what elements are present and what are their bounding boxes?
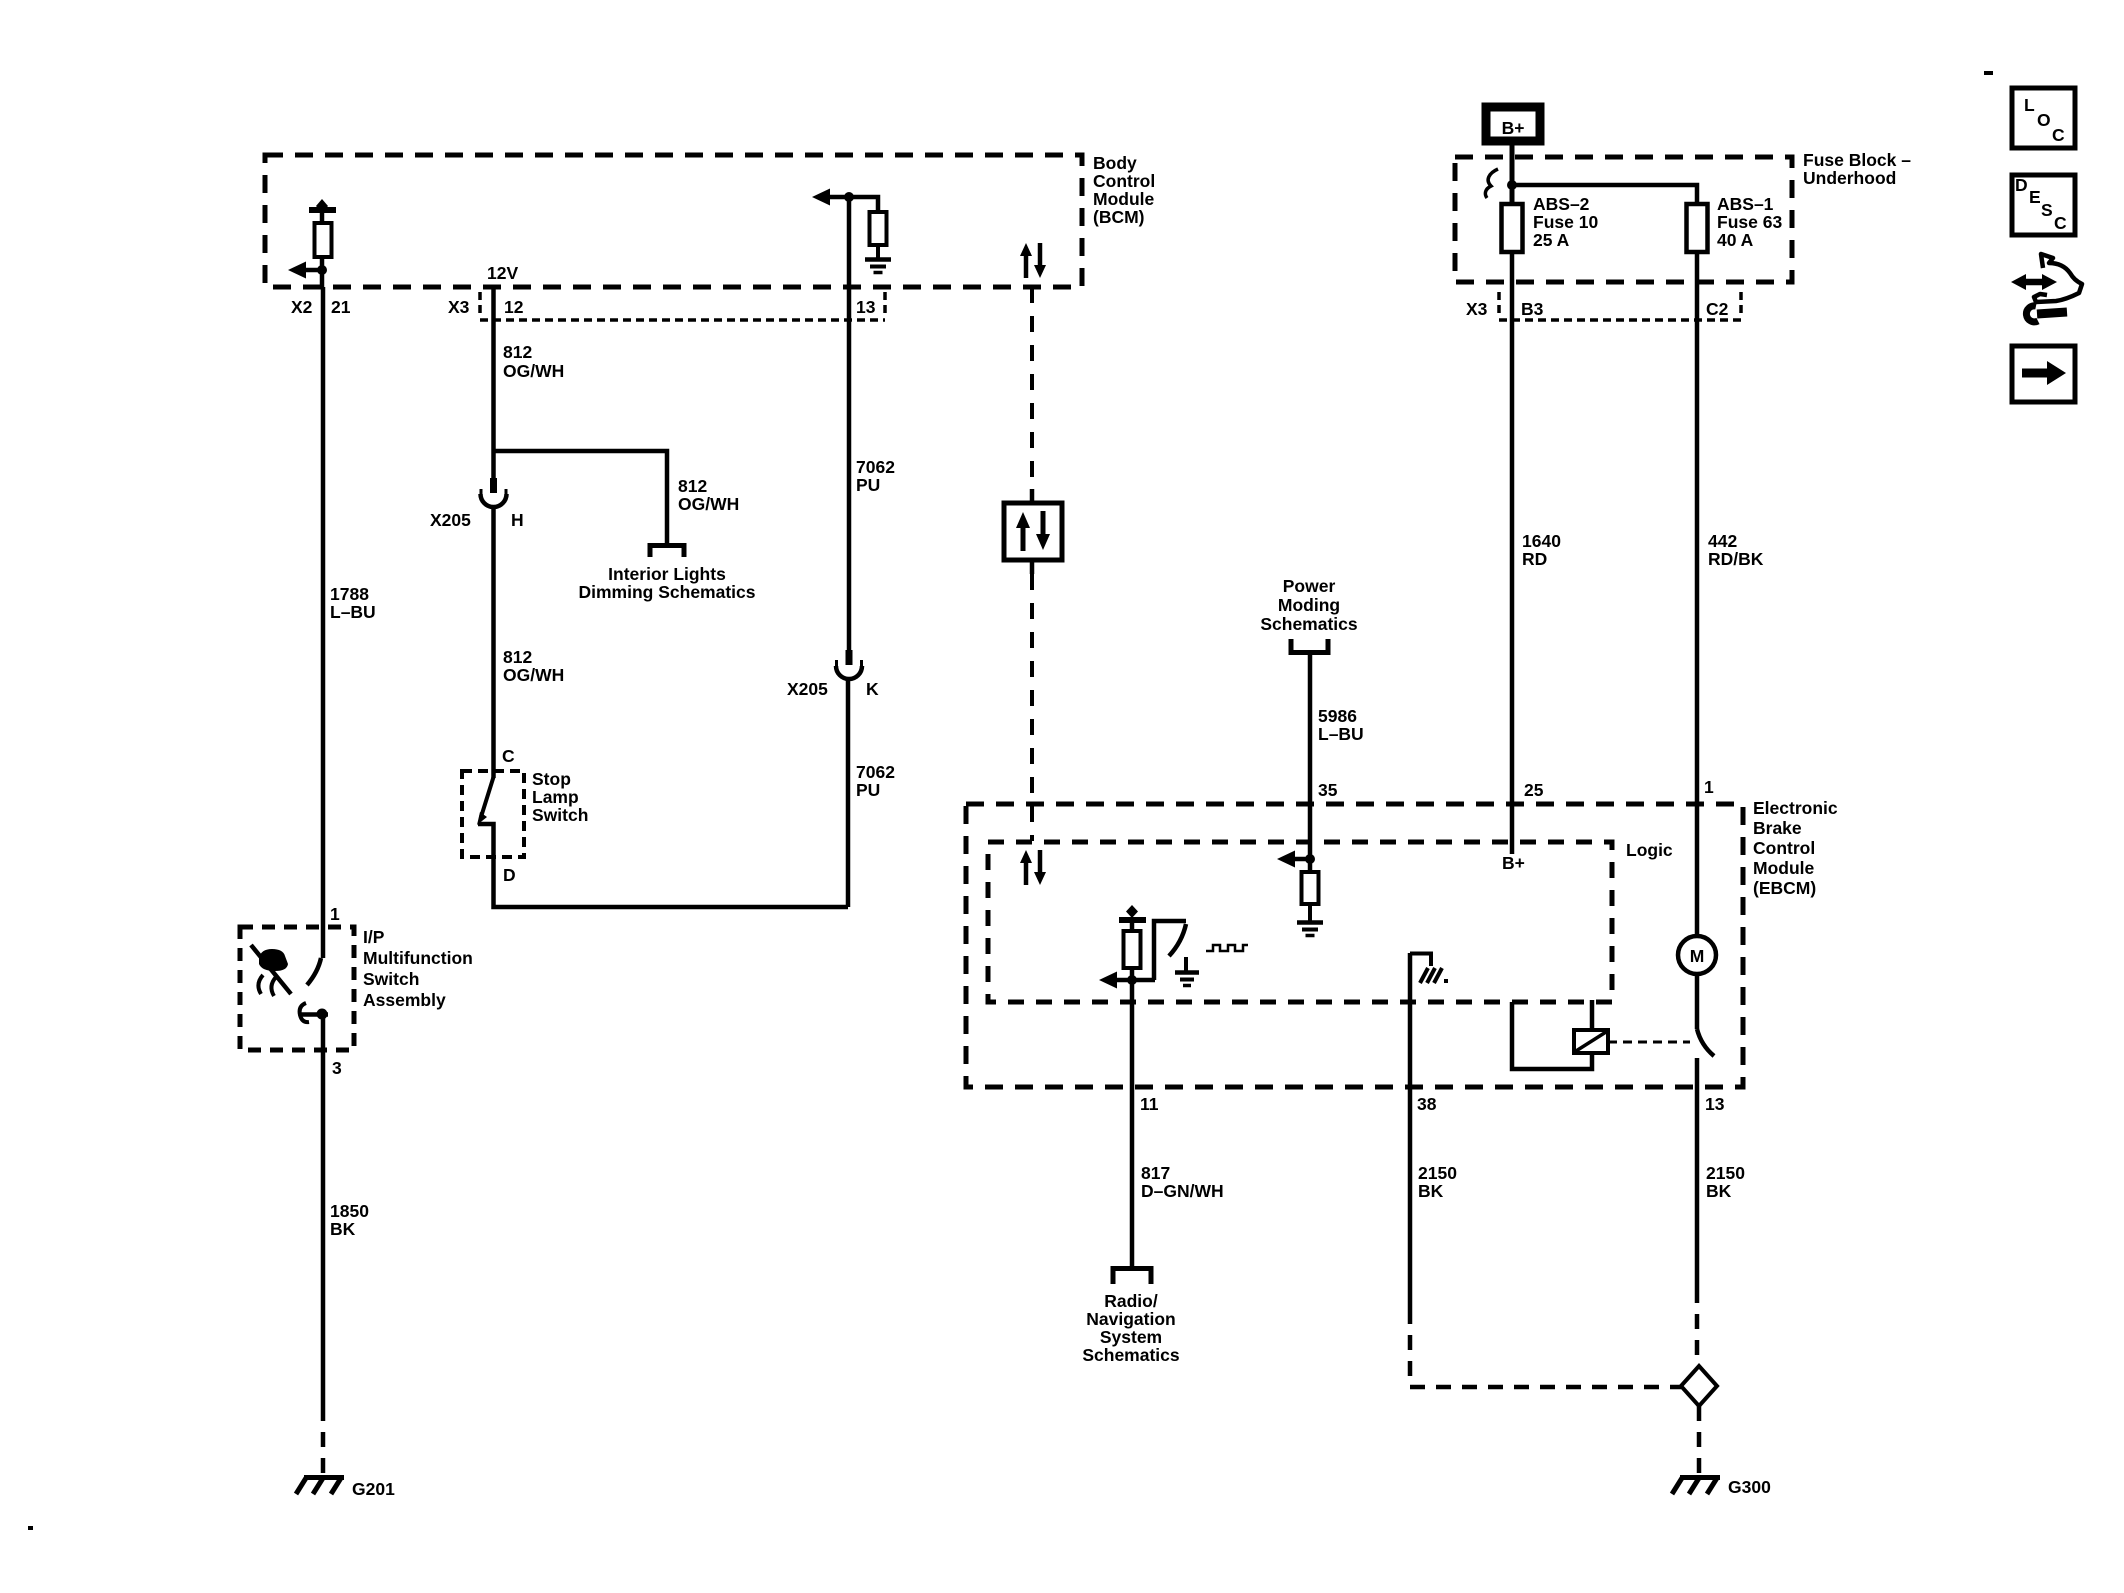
svg-text:RD/BK: RD/BK <box>1708 549 1764 569</box>
connector X3 (BCM) box <box>480 292 885 320</box>
svg-text:X3: X3 <box>448 297 470 317</box>
wire B+ feed <box>1510 141 1515 204</box>
svg-text:L–BU: L–BU <box>1318 724 1364 744</box>
BCM output arrow (left) <box>288 262 327 279</box>
in-line connector X205 H <box>430 451 524 530</box>
svg-text:X3: X3 <box>1466 299 1488 319</box>
svg-text:D: D <box>503 865 516 885</box>
svg-text:Switch: Switch <box>363 969 419 989</box>
Electronic Brake Control Module (EBCM) box <box>966 798 1838 1087</box>
ground G201 <box>296 1478 395 1500</box>
Power Moding Schematics off-page <box>1260 576 1358 653</box>
svg-text:X205: X205 <box>430 510 471 530</box>
svg-text:Brake: Brake <box>1753 818 1802 838</box>
svg-text:K: K <box>866 679 879 699</box>
svg-text:D: D <box>2015 175 2028 195</box>
fuse ABS-2 Fuse 10 25 A <box>1502 194 1599 252</box>
svg-text:1: 1 <box>1704 777 1714 797</box>
svg-text:Schematics: Schematics <box>1260 614 1358 634</box>
traction control icon <box>251 945 291 996</box>
ground G300 <box>1672 1477 1771 1497</box>
terminal clip symbol <box>1485 169 1498 198</box>
relay coil <box>1512 1000 1690 1069</box>
svg-text:2150: 2150 <box>1418 1163 1457 1183</box>
in-line connector X205 K <box>787 650 879 699</box>
svg-text:H: H <box>511 510 524 530</box>
svg-text:25: 25 <box>1524 780 1544 800</box>
svg-text:Fuse 10: Fuse 10 <box>1533 212 1598 232</box>
svg-text:Switch: Switch <box>532 805 588 825</box>
svg-text:C: C <box>2054 213 2067 233</box>
svg-text:PU: PU <box>856 780 880 800</box>
svg-text:Fuse 63: Fuse 63 <box>1717 212 1782 232</box>
svg-text:812: 812 <box>503 342 532 362</box>
wire 442 RD/BK <box>1695 252 1700 937</box>
B+ battery terminal <box>1486 107 1540 141</box>
5986 input: arrow, junction, resistor, ground <box>1277 851 1323 936</box>
svg-text:38: 38 <box>1417 1094 1437 1114</box>
svg-text:BK: BK <box>1418 1181 1444 1201</box>
svg-text:G300: G300 <box>1728 1477 1771 1497</box>
svg-text:B+: B+ <box>1502 853 1525 873</box>
svg-text:Dimming Schematics: Dimming Schematics <box>579 582 756 602</box>
wire 5986 L-BU <box>1308 652 1313 859</box>
svg-text:Navigation: Navigation <box>1086 1309 1175 1329</box>
svg-text:L–BU: L–BU <box>330 602 376 622</box>
svg-text:35: 35 <box>1318 780 1338 800</box>
svg-text:Lamp: Lamp <box>532 787 579 807</box>
branch wire to Interior Lights <box>494 451 668 545</box>
svg-text:1788: 1788 <box>330 584 369 604</box>
serial data dashed wire to EBCM <box>1030 574 1034 841</box>
B+ feed into Logic <box>1510 842 1515 854</box>
pump motor M <box>1678 936 1716 974</box>
svg-text:Logic: Logic <box>1626 840 1673 860</box>
stop lamp input: pull-up, arrow, switch to ground, square wave <box>1099 905 1248 989</box>
svg-text:3: 3 <box>332 1058 342 1078</box>
wire 2150 BK (pin 38) <box>1408 953 1413 1087</box>
BCM internal pull-up resistor to ground (right) <box>812 189 887 259</box>
svg-text:Control: Control <box>1753 838 1815 858</box>
scan artifact dot bottom-left <box>28 1526 33 1530</box>
DESC legend icon <box>2012 175 2075 235</box>
svg-text:B3: B3 <box>1521 299 1544 319</box>
splice (diamond) <box>1681 1366 1717 1406</box>
svg-text:I/P: I/P <box>363 927 385 947</box>
svg-text:G201: G201 <box>352 1479 395 1499</box>
svg-text:B+: B+ <box>1502 118 1525 138</box>
svg-text:ABS–2: ABS–2 <box>1533 194 1590 214</box>
svg-text:Underhood: Underhood <box>1803 168 1896 188</box>
svg-text:21: 21 <box>331 297 351 317</box>
dashed ground lead to splice <box>1410 1309 1681 1387</box>
wire 1640 RD <box>1510 252 1515 842</box>
off-page bracket Radio/Navigation <box>1082 1269 1180 1366</box>
relay switch blade <box>1697 1029 1714 1056</box>
serial data arrows inside Logic <box>1020 850 1046 885</box>
svg-text:Multifunction: Multifunction <box>363 948 473 968</box>
svg-text:C: C <box>2052 125 2065 145</box>
Logic box <box>988 840 1673 1002</box>
svg-text:E: E <box>2029 187 2041 207</box>
svg-text:C2: C2 <box>1706 299 1729 319</box>
svg-text:Stop: Stop <box>532 769 571 789</box>
wire 817 through Logic bottom <box>1130 980 1135 1087</box>
svg-text:1: 1 <box>330 904 340 924</box>
svg-text:OG/WH: OG/WH <box>678 494 739 514</box>
fuse ABS-1 Fuse 63 40 A <box>1687 194 1783 252</box>
junction B+ <box>1507 180 1517 190</box>
LOC legend icon <box>2012 88 2075 148</box>
svg-text:812: 812 <box>503 647 532 667</box>
Body Control Module (BCM) box <box>265 153 1155 287</box>
svg-text:13: 13 <box>856 297 876 317</box>
wire BCM pin 13 lead (7062 PU drop inside BCM) <box>847 197 852 650</box>
diagnostic (wrench) icon <box>2011 254 2082 322</box>
svg-text:2150: 2150 <box>1706 1163 1745 1183</box>
connector X3 (fuse block) box <box>1499 292 1741 320</box>
svg-text:Assembly: Assembly <box>363 990 446 1010</box>
scan artifact dash top-right <box>1984 71 1993 75</box>
svg-text:Fuse Block –: Fuse Block – <box>1803 150 1911 170</box>
svg-text:X2: X2 <box>291 297 313 317</box>
wire 812 OG/WH to stop lamp switch <box>491 507 496 778</box>
svg-text:442: 442 <box>1708 531 1737 551</box>
svg-text:13: 13 <box>1705 1094 1725 1114</box>
svg-text:812: 812 <box>678 476 707 496</box>
internal ground (pin 38) <box>1410 954 1448 984</box>
off-page bracket Interior Lights <box>579 546 756 603</box>
off-page right arrow icon <box>2012 346 2075 402</box>
svg-text:X205: X205 <box>787 679 828 699</box>
svg-text:Schematics: Schematics <box>1082 1345 1180 1365</box>
serial data link box <box>1004 489 1062 574</box>
wire from D to 7062 PU <box>494 857 849 907</box>
svg-text:Electronic: Electronic <box>1753 798 1838 818</box>
svg-text:1640: 1640 <box>1522 531 1561 551</box>
svg-text:Interior Lights: Interior Lights <box>608 564 726 584</box>
svg-text:OG/WH: OG/WH <box>503 361 564 381</box>
svg-text:40 A: 40 A <box>1717 230 1754 250</box>
BCM internal load (left resistor with supply bar) <box>309 199 336 287</box>
wire 1850 BK <box>321 1050 326 1406</box>
svg-text:C: C <box>502 746 515 766</box>
ground (BCM internal) <box>865 260 891 273</box>
svg-text:12: 12 <box>504 297 524 317</box>
wire 1788 L-BU <box>321 287 326 927</box>
wire 817 D-GN/WH <box>1130 1087 1135 1269</box>
svg-text:7062: 7062 <box>856 457 895 477</box>
svg-text:11: 11 <box>1140 1094 1159 1114</box>
I/P Multifunction Switch Assembly box <box>240 927 473 1050</box>
svg-text:Radio/: Radio/ <box>1104 1291 1158 1311</box>
svg-text:Body: Body <box>1093 153 1137 173</box>
wire to ABS-1 fuse <box>1512 185 1697 204</box>
svg-text:BK: BK <box>330 1219 356 1239</box>
svg-text:Module: Module <box>1093 189 1155 209</box>
Stop Lamp Switch box <box>462 769 588 857</box>
svg-text:D–GN/WH: D–GN/WH <box>1141 1181 1224 1201</box>
svg-text:Module: Module <box>1753 858 1815 878</box>
serial data arrows inside BCM <box>1020 243 1046 278</box>
switch (multifunction) <box>300 927 328 1050</box>
svg-text:7062: 7062 <box>856 762 895 782</box>
svg-text:5986: 5986 <box>1318 706 1357 726</box>
svg-text:System: System <box>1100 1327 1162 1347</box>
svg-text:817: 817 <box>1141 1163 1170 1183</box>
svg-text:BK: BK <box>1706 1181 1732 1201</box>
svg-text:S: S <box>2041 200 2053 220</box>
dashed lead to G300 <box>1697 1406 1702 1473</box>
serial data dashed wire from BCM <box>1030 287 1034 489</box>
wire 2150 BK (left) <box>1408 1087 1413 1309</box>
svg-text:Power: Power <box>1283 576 1336 596</box>
svg-text:1850: 1850 <box>330 1201 369 1221</box>
svg-text:Moding: Moding <box>1278 595 1340 615</box>
svg-text:M: M <box>1690 946 1705 966</box>
svg-text:(BCM): (BCM) <box>1093 207 1145 227</box>
svg-text:Control: Control <box>1093 171 1155 191</box>
wire 2150 BK (right) <box>1695 1087 1700 1288</box>
wire 7062 PU lower <box>846 679 851 907</box>
dashed ground lead <box>321 1406 326 1474</box>
svg-text:25 A: 25 A <box>1533 230 1570 250</box>
dashed lead to splice <box>1695 1288 1700 1366</box>
svg-text:O: O <box>2037 110 2051 130</box>
svg-text:L: L <box>2024 95 2035 115</box>
wire 12V from BCM pin 12 <box>491 287 496 479</box>
svg-text:RD: RD <box>1522 549 1547 569</box>
svg-text:OG/WH: OG/WH <box>503 665 564 685</box>
stop lamp switch blade <box>481 777 494 817</box>
svg-text:ABS–1: ABS–1 <box>1717 194 1774 214</box>
svg-text:PU: PU <box>856 475 880 495</box>
wire M to relay switch <box>1695 974 1700 1029</box>
Fuse Block - Underhood box <box>1455 150 1911 282</box>
svg-text:12V: 12V <box>487 263 518 283</box>
svg-text:(EBCM): (EBCM) <box>1753 878 1816 898</box>
